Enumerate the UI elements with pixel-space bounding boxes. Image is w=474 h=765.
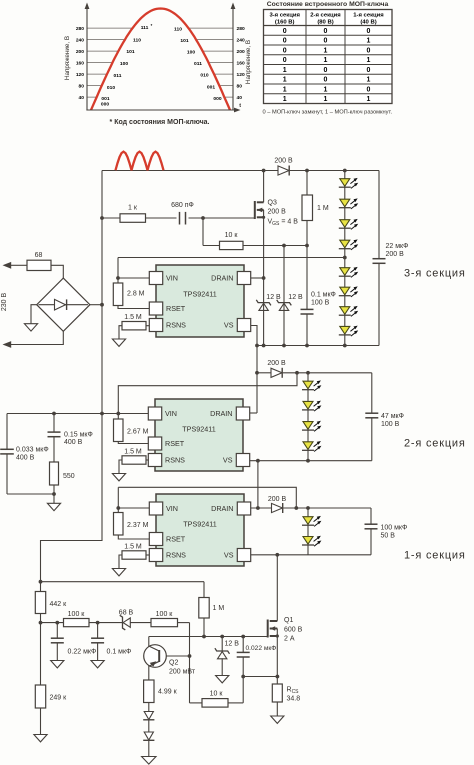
svg-text:1: 1 [283, 96, 287, 103]
svg-text:Состояние встроенного МОП-ключ: Состояние встроенного МОП-ключа [267, 1, 389, 8]
ground below 1.5 М section 1 [112, 569, 125, 576]
diode 200 В section 2 [267, 360, 286, 378]
svg-text:34.8: 34.8 [287, 696, 301, 703]
wire diode row section 1 [250, 507, 371, 509]
svg-text:RSET: RSET [165, 439, 185, 448]
resistor 68 [27, 252, 51, 271]
transistor Q1 MOSFET 600 В [268, 617, 303, 643]
svg-text:0.022 мкФ: 0.022 мкФ [246, 645, 277, 652]
capacitor 0.1 мкФ bottom [91, 638, 131, 655]
capacitor 0.033 мкФ 400 В [0, 447, 48, 462]
svg-text:0.033 мкФ: 0.033 мкФ [16, 447, 49, 454]
resistor RCS 34.8 [272, 684, 300, 703]
svg-text:011: 011 [114, 73, 122, 79]
svg-text:RSNS: RSNS [165, 456, 185, 465]
svg-text:2.67 М: 2.67 М [127, 429, 149, 436]
node VIN feed junction section 1 [294, 506, 298, 510]
svg-text:200 В: 200 В [268, 496, 287, 503]
svg-text:1.5 М: 1.5 М [124, 314, 142, 321]
wire VIN feed section 2 (L-shape) [118, 373, 297, 414]
node 2.8M top / VIN U1 [116, 276, 120, 280]
zener 68 В [119, 609, 134, 630]
svg-text:Напряжение, В: Напряжение, В [245, 40, 252, 84]
wire 1M column / 0.1uF column [306, 171, 308, 346]
wire 1M bottom column [203, 618, 205, 637]
svg-text:011: 011 [194, 61, 202, 67]
svg-text:Q2: Q2 [169, 660, 178, 667]
wire zener D2 line [283, 246, 285, 346]
LED string section 3 (upper) [339, 178, 358, 250]
svg-text:RSNS: RSNS [166, 551, 186, 560]
svg-text:10 к: 10 к [225, 232, 239, 239]
LED string section 2 [302, 380, 321, 451]
node 0.1uF top [96, 621, 100, 625]
svg-text:VIN: VIN [166, 274, 178, 283]
node VIN feed top corner [295, 371, 299, 375]
wire Q1 drain vertical [271, 555, 277, 621]
zener 12 В (second) [277, 294, 303, 310]
svg-text:Напряжение, В: Напряжение, В [64, 36, 71, 80]
wire AC input top [11, 264, 27, 266]
wire bridge left to ground [31, 305, 37, 324]
svg-text:40: 40 [79, 95, 85, 101]
node 0.022uF top [241, 635, 245, 639]
table data rows [283, 28, 371, 103]
wire top rail of 3rd section [102, 170, 379, 172]
svg-text:DRAIN: DRAIN [210, 409, 232, 418]
svg-text:280: 280 [76, 26, 84, 32]
svg-text:VS: VS [223, 456, 233, 465]
svg-text:1: 1 [283, 77, 287, 84]
wire bridge right to rail [90, 304, 102, 306]
node Q1 source / RCS top [276, 675, 280, 679]
svg-text:600 В: 600 В [284, 627, 303, 634]
wire VIN feed over U1 to LED midpoint [118, 257, 345, 259]
svg-text:1-я секция: 1-я секция [353, 13, 384, 19]
svg-text:0: 0 [324, 77, 328, 84]
wire Q2 base [159, 655, 189, 657]
IC U2 TPS92411 [148, 399, 249, 471]
svg-text:0.1 мкФ: 0.1 мкФ [107, 649, 132, 656]
AC input arrow bottom [3, 341, 12, 348]
svg-text:200: 200 [237, 49, 245, 55]
svg-text:0: 0 [324, 28, 328, 35]
svg-text:2 А: 2 А [284, 636, 295, 643]
capacitor 100 мкФ 50 В [365, 524, 408, 539]
svg-text:010: 010 [200, 73, 208, 79]
svg-text:RSNS: RSNS [166, 321, 186, 330]
svg-text:100 к: 100 к [68, 611, 86, 618]
wire 68R to bridge [51, 265, 63, 278]
svg-text:DRAIN: DRAIN [211, 274, 233, 283]
svg-text:0: 0 [324, 38, 328, 45]
svg-text:50 В: 50 В [381, 533, 396, 540]
wire 22uF branch [378, 171, 380, 346]
svg-text:47 мкФ: 47 мкФ [381, 413, 404, 420]
svg-text:200 В: 200 В [386, 251, 405, 258]
wire VIN row section 2 [7, 413, 149, 415]
node LED bottom section 2 [306, 459, 310, 463]
resistor 10 к [220, 232, 244, 250]
resistor 10 к bottom [202, 691, 228, 708]
wire VIN corner down [117, 258, 119, 279]
capacitor 680 пФ [171, 202, 194, 225]
svg-text:680 пФ: 680 пФ [171, 202, 194, 209]
svg-text:80: 80 [79, 83, 85, 89]
svg-text:1: 1 [324, 47, 328, 54]
ground below 1.5 М section 3 [112, 339, 125, 346]
wire bottom rail section 2 [249, 460, 372, 462]
svg-text:4.99 к: 4.99 к [158, 689, 178, 696]
wire Q2 collector [148, 637, 150, 647]
node zener2 top [282, 244, 286, 248]
svg-text:400 В: 400 В [64, 439, 83, 446]
svg-text:0: 0 [324, 67, 328, 74]
svg-text:1: 1 [324, 57, 328, 64]
node bottom rail junctions [255, 344, 347, 348]
resistor 1.5 М section 2 [119, 449, 149, 474]
resistor 1.5 М section 1 [119, 544, 149, 569]
svg-text:0: 0 [283, 38, 287, 45]
svg-text:280: 280 [237, 26, 245, 32]
resistor 249 к [35, 685, 67, 708]
resistor 1.5 М section 3 [119, 314, 149, 339]
svg-text:0.22 мкФ: 0.22 мкФ [68, 649, 97, 656]
graph right axis value labels [237, 26, 245, 101]
wire bottom rail section 1 [250, 554, 371, 556]
wire 0.22uF branch [56, 623, 58, 661]
zener 12 В bottom [215, 641, 239, 659]
ground at bridge [24, 324, 37, 331]
resistor 550 [50, 462, 75, 485]
svg-text:(80 В): (80 В) [317, 19, 333, 25]
node divider top section 2 [256, 459, 260, 463]
svg-text:160: 160 [76, 60, 84, 66]
ground below diode stack [142, 757, 156, 765]
node 2.37M top [116, 506, 120, 510]
wire to VIN pin U3 [118, 507, 149, 509]
wire bridge bottom to AC return [11, 331, 63, 344]
svg-text:100 мкФ: 100 мкФ [381, 525, 408, 532]
resistor 1 к [120, 205, 146, 223]
svg-text:400 В: 400 В [16, 455, 35, 462]
capacitor 0.22 мкФ [51, 638, 96, 655]
capacitor 0.022 мкФ [237, 645, 277, 657]
ground below 249 к [34, 735, 47, 742]
svg-text:1: 1 [367, 57, 371, 64]
wire LED chain section 2 [307, 373, 309, 461]
node 442k top [39, 580, 43, 584]
node 1M top on rail [305, 169, 309, 173]
resistor 442 к [35, 592, 67, 614]
node LED chain midpoint [343, 256, 347, 260]
diode lower (first) [143, 712, 154, 720]
transistor Q2 PNP 200 мВт [144, 645, 196, 676]
AC input arrow top [3, 262, 12, 269]
capacitor 22 мкФ 200 В [373, 243, 409, 263]
svg-text:1: 1 [367, 77, 371, 84]
ground below 550 [47, 503, 60, 510]
svg-text:* Код состояния МОП-ключа.: * Код состояния МОП-ключа. [110, 119, 210, 126]
svg-text:3-я секция: 3-я секция [404, 268, 466, 280]
svg-text:1: 1 [324, 86, 328, 93]
wire Q1 source to RCS [276, 636, 278, 716]
node Q2 base junction [188, 654, 192, 658]
svg-text:160: 160 [237, 60, 245, 66]
svg-text:442 к: 442 к [50, 601, 68, 608]
svg-text:001: 001 [101, 96, 109, 102]
svg-text:1 М: 1 М [213, 605, 225, 612]
svg-text:VS: VS [224, 321, 234, 330]
svg-text:101: 101 [126, 49, 134, 55]
node 1k row left [100, 216, 104, 220]
node DRAIN1 junction [256, 506, 260, 510]
svg-text:0: 0 [283, 28, 287, 35]
graph sine half-wave curve [91, 9, 230, 111]
capacitor 47 мкФ 100 В [365, 413, 404, 428]
svg-text:12 В: 12 В [225, 641, 240, 648]
svg-text:1: 1 [283, 67, 287, 74]
node VIN row on rail [100, 412, 104, 416]
node LED top section 2 [306, 371, 310, 375]
svg-text:40: 40 [237, 95, 243, 101]
wire 0.033uF branch [7, 414, 54, 495]
ground below RCS [271, 716, 284, 723]
svg-text:12 В: 12 В [266, 294, 281, 301]
wire Q2 emitter to 4.99k [148, 666, 150, 681]
svg-text:(40 В): (40 В) [360, 19, 376, 25]
svg-text:000: 000 [101, 102, 109, 108]
svg-text:68: 68 [35, 252, 43, 259]
LED string section 3 (lower) [339, 267, 358, 336]
resistor 2.8 М [113, 278, 149, 309]
svg-text:0.1 мкФ: 0.1 мкФ [311, 292, 336, 299]
bridge rectifier [37, 278, 90, 331]
svg-text:80: 80 [237, 83, 243, 89]
svg-text:1 к: 1 к [128, 205, 138, 212]
svg-text:RSET: RSET [166, 304, 186, 313]
svg-text:0.15 мкФ: 0.15 мкФ [64, 432, 93, 439]
svg-text:RSET: RSET [166, 535, 186, 544]
node DRAIN pin U1 [262, 276, 266, 280]
LED string section 1 [302, 516, 321, 546]
rectified sine symbol (red) [116, 152, 164, 171]
node Q1 drain feed [275, 553, 279, 557]
svg-text:120: 120 [76, 72, 84, 78]
graph gridlines [87, 28, 233, 97]
svg-text:200 мВт: 200 мВт [169, 669, 196, 676]
wire sense row [228, 677, 277, 703]
diode lower (second) [143, 732, 154, 740]
table column dividers [306, 10, 345, 104]
wire DRAIN pin U1 to source line [250, 277, 264, 279]
ground below 0.1 мкФ [91, 661, 104, 668]
ground below 0.22 мкФ [51, 661, 64, 668]
resistor 2.37 М [114, 508, 150, 539]
svg-text:TPS92411: TPS92411 [183, 290, 216, 299]
svg-text:Q1: Q1 [284, 617, 293, 624]
svg-text:0: 0 [367, 67, 371, 74]
svg-text:100 к: 100 к [156, 611, 174, 618]
resistor 100 к (right) [151, 611, 178, 627]
wire LED chain section 1 [307, 508, 309, 555]
wire 1k row [102, 217, 255, 219]
svg-text:0: 0 [283, 57, 287, 64]
diode 200 В section 3 [274, 158, 293, 176]
svg-text:Q3: Q3 [268, 200, 277, 207]
node 1M bottom / 0.1uF top [305, 244, 309, 248]
svg-text:DRAIN: DRAIN [211, 504, 233, 513]
svg-text:VIN: VIN [165, 409, 177, 418]
svg-text:t: t [239, 103, 241, 109]
IC U3 TPS92411 [149, 494, 250, 566]
wire gate row Q1 [149, 636, 268, 638]
svg-text:0: 0 [367, 47, 371, 54]
ground below 12 В zener [216, 676, 229, 683]
node 550 bottom [52, 492, 56, 496]
svg-text:000: 000 [213, 96, 221, 102]
table row dividers [264, 26, 393, 94]
svg-text:110: 110 [133, 38, 141, 44]
wire LED chain section 3 [344, 171, 346, 346]
wire 442k column [40, 582, 42, 735]
wire 12V zener branch [221, 637, 223, 676]
svg-text:111: 111 [141, 25, 149, 31]
svg-text:240: 240 [76, 37, 84, 43]
svg-text:2.37 М: 2.37 М [127, 522, 149, 529]
svg-text:22 мкФ: 22 мкФ [386, 243, 409, 250]
svg-text:2-я секция: 2-я секция [404, 438, 466, 450]
resistor 2.67 М [114, 414, 149, 444]
svg-text:200 В: 200 В [274, 158, 293, 165]
node 0.15uF top [52, 412, 56, 416]
svg-text:2.8 М: 2.8 М [127, 291, 145, 298]
svg-text:120: 120 [237, 72, 245, 78]
wire 0.022uF branch [242, 637, 244, 677]
node 1M / Q2 collector junction [202, 635, 206, 639]
table frame [264, 10, 393, 104]
graph MOSFET-state code labels (falling) [174, 26, 222, 102]
node 0.22uF top [55, 621, 59, 625]
node bridge output on rail [100, 303, 104, 307]
svg-text:010: 010 [107, 85, 115, 91]
svg-text:0: 0 [367, 28, 371, 35]
resistor 1 М bottom [199, 598, 225, 619]
svg-text:240: 240 [237, 37, 245, 43]
svg-text:VIN: VIN [166, 504, 178, 513]
svg-text:1: 1 [367, 96, 371, 103]
transistor Q3 MOSFET [255, 200, 298, 228]
svg-text:1-я секция: 1-я секция [404, 550, 466, 562]
svg-text:TPS92411: TPS92411 [183, 520, 216, 529]
resistor 4.99 к [144, 680, 178, 703]
svg-text:200 В: 200 В [267, 360, 286, 367]
svg-text:68 В: 68 В [119, 609, 134, 616]
node 12V zener top [220, 635, 224, 639]
wire 0.15uF / 550 branch [53, 414, 55, 504]
svg-text:100: 100 [187, 50, 195, 56]
wire VS pin U1 to bottom rail [250, 326, 257, 346]
svg-text:001: 001 [207, 84, 215, 90]
node diode row section 2 [255, 371, 259, 375]
svg-text:10 к: 10 к [210, 691, 224, 698]
wire left rail [41, 171, 103, 582]
svg-text:VS: VS [224, 551, 234, 560]
wire 4.99k to diodes [148, 703, 150, 757]
wire 10k branch [203, 218, 307, 246]
svg-text:1: 1 [324, 96, 328, 103]
node LED chain top [343, 169, 347, 173]
svg-text:249 к: 249 к [50, 695, 68, 702]
wire VIN feed section 1 [118, 487, 296, 508]
svg-text:550: 550 [63, 473, 75, 480]
svg-text:100 В: 100 В [381, 421, 400, 428]
graph time axis [86, 103, 241, 113]
svg-text:110: 110 [174, 26, 182, 32]
node Q3 drain on top rail [262, 169, 266, 173]
zener 12 В (first) [256, 294, 281, 310]
svg-text:1: 1 [367, 38, 371, 45]
resistor 1 М section 3 [302, 195, 329, 221]
svg-text:TPS92411: TPS92411 [182, 425, 215, 434]
svg-text:1.5 М: 1.5 М [124, 544, 142, 551]
resistor 100 к (left) [64, 611, 90, 627]
svg-text:12 В: 12 В [288, 294, 303, 301]
wire divider vertical (VS2 to DRAIN1) [257, 461, 259, 508]
wire divider row 100k/68V/100k [41, 623, 203, 703]
wire bottom rail section 3 [257, 345, 379, 347]
wire Q3 source / zener D1 line [263, 217, 265, 345]
svg-text:2-я секция: 2-я секция [310, 13, 341, 19]
svg-text:(160 В): (160 В) [275, 19, 295, 25]
capacitor 0.1 мкФ 100 В [301, 292, 336, 315]
table header row [269, 13, 384, 26]
ground below 1.5 М section 2 [112, 474, 125, 481]
node gate junction [201, 216, 205, 220]
wire diode row section 2 [257, 372, 372, 374]
node LED top section 1 [306, 506, 310, 510]
node sense row left [241, 675, 245, 679]
svg-text:0: 0 [367, 86, 371, 93]
svg-text:200 В: 200 В [268, 209, 287, 216]
graph right voltage axis [231, 3, 236, 111]
svg-text:1.5 М: 1.5 М [124, 449, 142, 456]
wire VIN corner section 1 [117, 487, 119, 508]
svg-text:101: 101 [180, 38, 188, 44]
graph MOSFET-state code labels (rising) [101, 23, 153, 108]
wire 47uF branch [371, 373, 373, 461]
svg-text:0: 0 [283, 47, 287, 54]
svg-text:230 В: 230 В [1, 293, 8, 312]
IC U1 TPS92411 [149, 265, 250, 337]
svg-text:200: 200 [76, 49, 84, 55]
node row left [39, 621, 43, 625]
wire to VIN pin U1 [118, 277, 149, 279]
svg-text:1 М: 1 М [317, 205, 329, 212]
capacitor 0.15 мкФ 400 В [48, 432, 93, 447]
wire 100uF branch [370, 508, 372, 555]
graph left voltage axis [85, 3, 90, 111]
wire Q3 drain [263, 171, 265, 203]
wire section divider vertical (VS3 to DRAIN2) [250, 346, 257, 414]
node 2.67M top [116, 412, 120, 416]
graph left axis value labels [76, 26, 84, 101]
svg-text:0 – МОП-ключ замкнут, 1 – МОП-: 0 – МОП-ключ замкнут, 1 – МОП-ключ разом… [263, 110, 393, 116]
svg-text:100: 100 [120, 61, 128, 67]
diode 200 В section 1 [268, 496, 287, 513]
wire bottom block top row [41, 582, 205, 598]
svg-text:3-я секция: 3-я секция [269, 13, 300, 19]
